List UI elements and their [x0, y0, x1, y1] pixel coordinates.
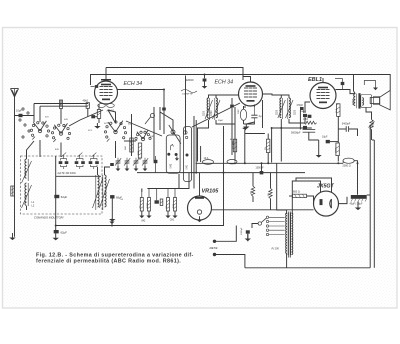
output transformer T3 box: [361, 95, 372, 108]
wire V2 osc join: [244, 122, 255, 124]
svg-text:4μ: 4μ: [259, 114, 262, 118]
wire V4 top: [199, 173, 201, 196]
label osc coil: [238, 109, 240, 114]
tube V4 VR105: [188, 196, 212, 220]
svg-text:30pF: 30pF: [218, 120, 224, 122]
wire field coil to caps: [354, 161, 357, 195]
svg-text:10pF: 10pF: [16, 109, 22, 113]
label 5kc: [128, 124, 132, 126]
switch wafer S1a: [30, 121, 49, 140]
svg-text:RETE: RETE: [210, 246, 219, 250]
wire S1c down: [115, 141, 117, 156]
wire S1b to tuner box: [60, 143, 62, 158]
speaker driver: [370, 97, 380, 105]
svg-text:00000: 00000: [352, 98, 354, 105]
voltage selector contacts: [266, 216, 284, 236]
wire 3400pF left: [338, 128, 346, 130]
svg-text:ATM Ω: ATM Ω: [107, 110, 115, 113]
capacitor V3 under a: [308, 115, 312, 118]
svg-text:220000: 220000: [186, 80, 194, 82]
wire V3 bias net: [309, 132, 319, 140]
label 1k: [125, 146, 127, 150]
label 15A: [335, 108, 338, 113]
wire T1 sec top to V2 grid: [216, 94, 239, 96]
wire V5 anode b: [296, 178, 332, 192]
label 10A: [322, 136, 328, 139]
svg-text:C320: C320: [211, 110, 213, 116]
switch box B2: [184, 127, 192, 182]
wire bank A bottom: [56, 175, 101, 177]
wire V1 grid col 2: [87, 108, 89, 116]
wire transformer top: [277, 195, 287, 214]
wire V1 pin to wafer b: [69, 110, 103, 126]
wire L3 top: [97, 167, 99, 175]
capacitor right of tuner: [110, 195, 114, 214]
label V2 ECH34: [215, 80, 234, 86]
label 220pF: [186, 80, 194, 82]
label 50k3: [251, 191, 253, 194]
resistor divider cluster: [140, 198, 177, 212]
wire S1d right: [124, 140, 136, 142]
wire W2 res top: [60, 100, 62, 106]
wire V3 cath to cap: [330, 141, 338, 143]
tube V1 ECH34: [95, 81, 118, 104]
ground filter: [355, 202, 361, 211]
inductor V2 osc coil: [240, 106, 246, 124]
wire V3 cathode down: [336, 103, 338, 105]
wire wafer row top c: [60, 109, 62, 125]
label 0C1: [88, 130, 93, 132]
capacitor 1000pF osc: [260, 171, 262, 173]
resistor V3 cathode 100: [336, 143, 339, 156]
label V1 ECH34: [124, 81, 143, 87]
label B1: [171, 163, 173, 169]
wire V3 screen vert: [337, 116, 339, 143]
ground antenna: [9, 233, 15, 240]
switch wafer S1e diag: [126, 114, 162, 137]
wire top to speaker mouth: [354, 75, 391, 91]
svg-text:40000: 40000: [147, 202, 149, 208]
inductor L2 tuning: [22, 183, 32, 210]
wire T2 top: [281, 95, 289, 98]
label CH1: [170, 220, 175, 222]
wire osc vert a: [131, 114, 133, 156]
switch wafer S1d: [133, 130, 151, 141]
ground V4: [196, 216, 202, 222]
wire divider drops: [142, 189, 175, 201]
capacitor V3 bias: [326, 140, 330, 143]
IF transformer T2 primary: [278, 98, 286, 119]
wire osc grid: [243, 106, 245, 109]
tube V1 base pins: [98, 104, 115, 108]
wire T3 top feed: [354, 91, 356, 94]
label padder values: [58, 173, 76, 175]
wire L1 top stub: [27, 141, 35, 157]
wire B1 drop right: [178, 174, 180, 189]
wire 600 right: [307, 196, 314, 204]
svg-text:0220: 0220: [203, 110, 205, 116]
label B2: [187, 164, 189, 170]
wire T2 sec down: [289, 119, 305, 123]
wire mains cap stub: [247, 234, 249, 242]
ground trimmer bank B: [116, 166, 148, 172]
label 2k: [138, 151, 140, 155]
permeability tuner box: [21, 156, 103, 214]
wire grid leak vert: [271, 128, 273, 163]
wire T1 prim down: [198, 120, 209, 162]
svg-text:600 Ω: 600 Ω: [293, 191, 300, 194]
wire 30k dn: [267, 153, 269, 164]
label sct: [104, 123, 109, 125]
label ATM ohm: [107, 110, 115, 113]
field coil 2000ohm: [343, 158, 354, 163]
speaker cone: [380, 90, 391, 110]
IF transformer T1 primary: [205, 98, 213, 120]
capacitor divider: [155, 200, 159, 203]
svg-text:0220: 0220: [276, 109, 278, 115]
node IF1 top junction: [202, 74, 208, 89]
wire T1 trim dn: [231, 108, 233, 155]
capacitor V2 osc: [251, 107, 257, 122]
resistor osc b: [138, 143, 141, 160]
svg-text:40kΩ: 40kΩ: [83, 100, 89, 103]
svg-text:30k: 30k: [265, 147, 267, 150]
wire L4 top: [105, 167, 111, 175]
wire tuner mid: [55, 156, 57, 226]
inductor L3 tuning: [93, 175, 103, 210]
IF transformer T1 secondary: [213, 98, 221, 120]
svg-text:40μF | 16μF: 40μF | 16μF: [350, 202, 363, 205]
capacitor V1 grid top: [91, 85, 99, 88]
terminal mains b: [213, 253, 216, 256]
wire pot vert: [371, 130, 373, 141]
wire VRdrop b up: [270, 173, 272, 189]
label V3 EBL1: [308, 77, 322, 83]
svg-text:/ 042: / 042: [171, 163, 173, 169]
wire mid vert c: [185, 76, 187, 135]
svg-text:50000pF: 50000pF: [291, 132, 301, 135]
label T3: [352, 98, 354, 105]
svg-text:15 A: 15 A: [335, 108, 338, 113]
label RETE: [210, 246, 219, 250]
label 843: [55, 149, 59, 151]
resistor divider small: [160, 199, 163, 206]
resistor VR dropper b: [269, 188, 272, 198]
wire avc corner: [244, 130, 246, 163]
power transformer core: [289, 212, 291, 258]
wire rail right inner: [373, 140, 375, 268]
svg-text:50k: 50k: [268, 193, 270, 196]
label 4uF: [259, 114, 262, 118]
IF transformer T2 secondary: [286, 98, 294, 119]
capacitor mains 1000pF: [246, 230, 250, 233]
antenna: [11, 89, 19, 98]
label L1 L2: [32, 201, 35, 208]
wire wafer row top a: [34, 103, 88, 105]
wire AVC bus: [56, 210, 224, 226]
wire V1 plate top: [105, 68, 107, 80]
wire V5 out: [339, 197, 348, 204]
label 68uF: [116, 196, 122, 200]
svg-text:VR105: VR105: [202, 189, 220, 195]
capacitor fixed right of bank: [110, 163, 114, 166]
wire rail right outer: [369, 126, 371, 268]
svg-text:CH1: CH1: [170, 220, 175, 222]
wire 3400pF right: [349, 129, 358, 136]
wire V1 cathode: [98, 104, 100, 110]
inductor L1 tuning: [22, 157, 32, 183]
capacitor on B1 col: [162, 108, 166, 111]
wire mid vert a: [153, 156, 155, 161]
ground mains cap: [245, 234, 251, 241]
wire V5 anode a: [292, 181, 320, 211]
label V5 JXSGT: [317, 184, 335, 190]
svg-text:100 MF HF: 100 MF HF: [182, 94, 194, 96]
wire T1 trim stub: [231, 98, 233, 104]
wire mid vert b: [159, 107, 161, 130]
capacitor 50000pF: [303, 130, 316, 133]
svg-text:470pF: 470pF: [297, 105, 304, 107]
wire V4 anode up: [223, 126, 225, 210]
switch arm above B1: [169, 125, 181, 144]
wire mid vert d: [160, 112, 173, 134]
wire S1a to tuner box: [39, 140, 41, 157]
wire T2 cap stub: [304, 117, 306, 123]
label 10pF: [16, 109, 22, 113]
wire speaker field: [372, 139, 374, 141]
capacitor 62uF bypass: [54, 226, 59, 234]
ground V1 cathode: [94, 123, 100, 129]
label PIGR: [272, 248, 279, 251]
wire V3 grid net: [299, 110, 301, 130]
wire pot top: [366, 107, 372, 119]
label 100a: [230, 139, 233, 141]
resistor dropper 5k: [233, 139, 236, 152]
tube V5 JXSGT: [314, 191, 339, 216]
switch box B1: [166, 135, 180, 173]
label 842: [142, 221, 147, 223]
label 470pF: [297, 105, 304, 107]
capacitor EBL1 top: [335, 79, 344, 90]
wire cap to cathode: [95, 116, 97, 118]
wire V3 cath bottom: [337, 156, 339, 162]
capacitor antenna coupling: [19, 114, 23, 117]
voltage selector arm: [258, 218, 266, 225]
wire osc vert b: [153, 107, 155, 156]
capacitor filter block: [351, 195, 367, 202]
label 043: [64, 119, 68, 121]
wire tube1 to B1 col: [118, 90, 165, 135]
wire V2 pin down c: [262, 100, 264, 128]
ground right of tuner: [109, 215, 115, 222]
label 50T: [45, 117, 49, 119]
capacitor T1 trim: [230, 105, 234, 108]
resistor V3 screen 15A: [337, 104, 340, 117]
wire V1 pin to wafer: [108, 110, 116, 123]
svg-text:10k: 10k: [140, 205, 142, 208]
ground AVC a: [109, 219, 114, 226]
terminal mains a: [213, 240, 216, 243]
padder capacitor bank A: [59, 153, 99, 169]
label tuner caption: [34, 216, 64, 220]
wire T1 sec down: [216, 120, 235, 124]
capacitor T2 trim b: [303, 126, 307, 129]
label V4 VR105: [202, 189, 220, 195]
wire mid pair a: [193, 116, 195, 189]
wire V3 top cap: [322, 78, 324, 83]
label 40k: [83, 100, 89, 103]
power transformer secondary: [291, 213, 293, 255]
label 1M: [303, 119, 308, 121]
label 62uF a: [61, 195, 68, 199]
capacitor mid col: [154, 156, 158, 173]
wire 30k up: [267, 134, 269, 140]
svg-text:10k: 10k: [166, 205, 168, 208]
trimmer bank B: [115, 158, 148, 166]
inductor L4 coupling: [100, 175, 110, 210]
wire wafer row top d: [39, 106, 41, 122]
wire V2 to S1e: [192, 103, 240, 127]
label 1000pF mains: [241, 227, 243, 235]
label 30k2: [265, 147, 267, 150]
resistor V1 grid 40k: [86, 103, 89, 109]
wire avc corner h: [245, 133, 265, 135]
svg-text:ECH 34: ECH 34: [124, 81, 143, 87]
node contacts left of S1a: [19, 108, 30, 138]
svg-text:ECH 34: ECH 34: [215, 80, 234, 86]
label 10A oval: [204, 157, 209, 160]
svg-text:1000pF: 1000pF: [256, 167, 265, 170]
arrow avc: [242, 127, 247, 131]
ground V3 bias: [316, 140, 322, 158]
wire divider top: [147, 173, 189, 189]
label 1000pF mid: [256, 167, 265, 170]
svg-text:1MΩ: 1MΩ: [303, 119, 308, 121]
wire secondary top: [291, 211, 293, 214]
wire V2 top: [243, 77, 251, 83]
wire T2 to EBL1 grid: [305, 102, 310, 113]
wire T2 prim down: [280, 119, 282, 162]
resistor W2 top: [60, 100, 63, 109]
svg-text:1kΩ: 1kΩ: [125, 146, 127, 150]
wire HT bus: [196, 162, 344, 164]
ground divider cluster: [139, 211, 177, 218]
wire V3 plate to T3: [336, 90, 356, 94]
svg-text:2kΩ: 2kΩ: [138, 151, 140, 155]
tube V1 top cap: [101, 79, 111, 81]
wire mid pair b: [195, 120, 197, 173]
svg-text:5kΩ A: 5kΩ A: [372, 119, 375, 126]
label 40a: [150, 136, 154, 138]
bracket IF1 label: [181, 90, 197, 96]
svg-text:10μF: 10μF: [322, 136, 328, 139]
svg-text:ferenziale di permeabilità (AB: ferenziale di permeabilità (ABC Radio mo…: [36, 259, 181, 265]
svg-text:EBL1: EBL1: [308, 77, 322, 83]
capacitor V1 cathode: [91, 115, 95, 118]
label T1 b: [211, 110, 213, 116]
power transformer primary: [286, 213, 288, 255]
resistor V3 1M: [304, 121, 317, 124]
label Mfd: [233, 140, 235, 145]
fuse choke oval a: [203, 160, 214, 165]
wire top bus outer: [91, 75, 354, 92]
label T2 b: [295, 109, 297, 115]
output transformer T3 secondary: [362, 98, 363, 106]
wire wafer row top b: [33, 104, 35, 116]
wire V1 grid col: [87, 103, 89, 104]
capacitor tuner 62uF: [54, 195, 59, 198]
wire mains a: [216, 226, 236, 242]
svg-text:COMANDO INDUTTORI: COMANDO INDUTTORI: [34, 216, 64, 220]
label 2000ohm: [343, 165, 351, 168]
label 100ohm: [335, 147, 337, 153]
switch wafer S1c: [104, 121, 126, 142]
capacitor tone top: [364, 81, 378, 91]
wire VRdrop b dn: [270, 199, 272, 210]
wire antenna to band switch: [15, 116, 35, 123]
resistor antenna shunt: [11, 186, 14, 196]
wire wafer row top a2: [40, 105, 88, 107]
label 40uF 16uF: [350, 202, 363, 205]
wire V2 pin down a: [244, 106, 246, 109]
wire S1c top: [108, 110, 116, 123]
wire VRdrop a up: [252, 173, 254, 187]
capacitor 470pF grid: [300, 107, 304, 113]
wire 600 left: [289, 195, 293, 197]
label 500ohm: [372, 119, 375, 126]
wire T1 top link: [209, 95, 217, 98]
tube V2 ECH34: [239, 82, 263, 106]
switch box B1 contacts: [167, 145, 179, 161]
svg-text:3400pF: 3400pF: [342, 122, 351, 125]
switch box B2 contacts: [184, 131, 189, 157]
output transformer T3 primary: [354, 94, 357, 109]
resistor osc a: [130, 138, 133, 152]
wire filter top right: [367, 194, 371, 196]
switch wafer S1b: [51, 123, 70, 142]
svg-text:10 A: 10 A: [204, 157, 209, 160]
resistor 600ohm: [293, 194, 307, 197]
svg-text:/ 041: / 041: [187, 164, 189, 170]
fuse choke oval b: [227, 160, 237, 164]
ground V2 oscillator: [243, 124, 249, 129]
svg-text:1000pF: 1000pF: [241, 227, 243, 235]
svg-text:25k: 25k: [233, 146, 235, 149]
capacitor 3400pF: [346, 126, 348, 132]
wire V2 left col: [234, 107, 236, 162]
svg-text:50T: 50T: [45, 117, 49, 119]
output transformer T3 core: [358, 93, 360, 108]
wire cap mid stub: [261, 163, 263, 171]
svg-text:2μF 5F 32F 400Ω: 2μF 5F 32F 400Ω: [58, 173, 76, 175]
wire antenna lead: [14, 97, 16, 237]
label 600ohm: [293, 191, 300, 194]
wire mid single: [200, 146, 202, 162]
svg-text:P.I.GR: P.I.GR: [272, 248, 279, 251]
label 25k: [233, 146, 235, 149]
label 30pf: [218, 120, 224, 122]
wire mains b: [216, 255, 245, 268]
wire mid feed down: [276, 163, 278, 195]
wire VRdrop a dn: [252, 196, 254, 202]
resistor dropper 30k: [267, 139, 270, 152]
svg-text:SCT: SCT: [104, 123, 109, 125]
svg-text:62μF: 62μF: [61, 195, 68, 199]
svg-text:2000 Ω: 2000 Ω: [343, 165, 351, 168]
wire V1 cathode 2: [98, 118, 100, 123]
svg-text:OSC: OSC: [238, 109, 240, 114]
wire top bus inner: [106, 68, 243, 81]
